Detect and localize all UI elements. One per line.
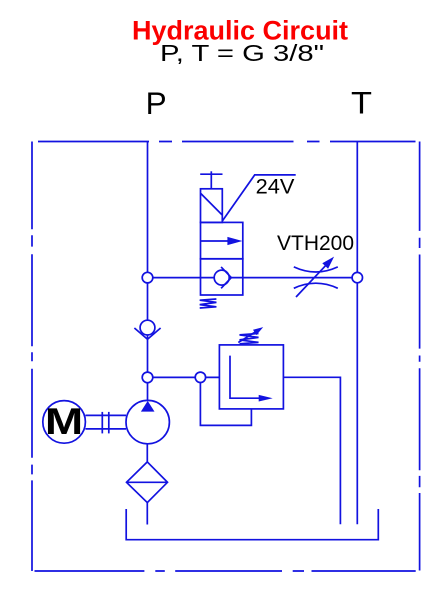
svg-text:T: T: [351, 84, 372, 120]
enclosure boundary top (dash-dot): [38, 141, 416, 143]
relief valve RV1 spring: [240, 334, 259, 344]
wire filter to tank: [146, 503, 148, 525]
valve V1 electrical T-bar: [200, 173, 222, 175]
wire relief valve drain loop: [200, 377, 251, 425]
coupling bar 2: [108, 412, 110, 434]
valve V1 flow arrow: [201, 240, 233, 242]
valve V1 solenoid box: [201, 189, 223, 223]
pump P1 outlet triangle: [141, 401, 155, 412]
filter F1 element line: [127, 481, 168, 483]
valve V1 check valve seat: [221, 267, 231, 288]
node junction on T at main line: [352, 272, 362, 282]
check valve CV1 seat: [134, 328, 160, 339]
valve V1 solenoid diagonal: [201, 194, 222, 216]
relief valve RV1 adjust arrow: [238, 330, 259, 343]
svg-text:P: P: [146, 85, 167, 121]
wire branch to relief valve: [148, 376, 220, 378]
relief valve RV1 flow path: [230, 356, 259, 399]
filter F1 diamond: [127, 462, 168, 503]
valve V1 body top square: [201, 222, 243, 258]
valve V1 electrical stem: [210, 171, 212, 189]
node junction at relief valve inlet: [195, 372, 205, 382]
node junction on P at main line: [142, 272, 153, 283]
svg-text:VTH200: VTH200: [277, 230, 354, 255]
throttle valve VTH200 adjust arrow: [296, 261, 330, 297]
wire relief valve outlet to tank: [283, 377, 340, 524]
tank: [126, 509, 378, 540]
valve V1 check valve ball: [214, 270, 229, 285]
motor M1 circle: [43, 401, 86, 444]
svg-text:P, T = G 3/8": P, T = G 3/8": [160, 40, 324, 66]
throttle valve VTH200 lower arc: [294, 283, 338, 288]
wire T line vertical: [356, 142, 358, 525]
wire P line vertical: [147, 142, 149, 402]
wire pump to filter: [146, 422, 148, 462]
shaft lower line: [85, 428, 126, 430]
throttle valve VTH200 upper arc: [294, 267, 338, 272]
coupling bar 1: [101, 412, 103, 434]
relief valve RV1 body: [219, 345, 283, 409]
node junction on P at branch: [142, 372, 153, 383]
valve V1 return spring: [200, 299, 217, 308]
valve V1 body bottom square: [201, 259, 243, 295]
svg-text:24V: 24V: [256, 174, 295, 199]
enclosure boundary left (dash-dot): [31, 142, 33, 572]
check valve CV1 ball: [140, 320, 155, 335]
shaft upper line: [85, 414, 126, 416]
wire main horizontal P to T: [148, 277, 358, 279]
label 24V leader line: [223, 175, 296, 221]
svg-text:M: M: [45, 400, 83, 442]
enclosure boundary right (dash-dot): [419, 142, 421, 571]
enclosure boundary bottom (dash-dot): [35, 570, 416, 572]
pump P1 circle: [126, 400, 169, 443]
